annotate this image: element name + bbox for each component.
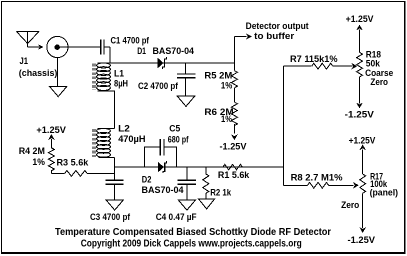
svg-text:R1 5.6k: R1 5.6k	[218, 170, 250, 181]
svg-text:C3 4700 pf: C3 4700 pf	[90, 212, 131, 223]
capacitor C3	[105, 179, 123, 181]
svg-text:1%: 1%	[221, 114, 232, 125]
resistor R5	[231, 71, 237, 88]
svg-text:R4 2M: R4 2M	[19, 146, 45, 157]
capacitor C5	[159, 139, 161, 155]
svg-text:BAS70-04: BAS70-04	[153, 46, 195, 57]
inductor L1	[97, 63, 111, 68]
svg-text:8µH: 8µH	[114, 79, 128, 90]
wire R4 top	[48, 134, 55, 140]
wire R17 bottom	[362, 193, 364, 228]
diode D2	[158, 162, 164, 173]
wire R17 top	[359, 144, 366, 150]
antenna symbol	[17, 32, 40, 48]
wire R4 to R3	[50, 171, 52, 174]
wire L1 bottom	[97, 90, 115, 92]
wire C3 to ground	[114, 184, 116, 200]
wire output riser	[233, 37, 235, 71]
svg-text:D1: D1	[137, 46, 146, 57]
ground under J1	[50, 86, 67, 96]
resistor R4	[48, 148, 54, 171]
svg-text:Zero: Zero	[370, 77, 388, 88]
wire L2 bottom	[99, 157, 115, 159]
svg-text:C4 0.47 µF: C4 0.47 µF	[156, 212, 197, 223]
wire R6 to -1.25V	[233, 124, 235, 133]
wire R8 left	[283, 184, 307, 186]
svg-text:(chassis): (chassis)	[19, 68, 58, 79]
svg-text:-1.25V: -1.25V	[348, 235, 376, 246]
svg-text:C2 4700 pf: C2 4700 pf	[138, 81, 179, 92]
svg-text:+1.25V: +1.25V	[346, 14, 375, 25]
wire to C4	[186, 167, 188, 180]
ground under R2	[199, 199, 215, 209]
svg-text:R8 2.7 M1%: R8 2.7 M1%	[291, 173, 344, 184]
diode D1	[158, 58, 164, 69]
svg-text:+1.25V: +1.25V	[349, 136, 376, 147]
wire J1 to ground	[56, 58, 58, 87]
svg-text:R3 5.6k: R3 5.6k	[57, 157, 89, 168]
svg-text:Copyright 2009 Dick Cappels ww: Copyright 2009 Dick Cappels www.projects…	[81, 238, 302, 249]
svg-text:J1: J1	[20, 56, 29, 67]
resistor R6	[231, 102, 237, 126]
wire node column	[282, 66, 284, 185]
wire R7 left	[283, 65, 311, 67]
wire spine to C3	[114, 158, 116, 181]
svg-text:1%: 1%	[32, 157, 45, 168]
svg-text:C1 4700 pf: C1 4700 pf	[111, 35, 150, 46]
ground under C2	[177, 96, 194, 106]
wire output arrow	[234, 36, 246, 38]
connector J1 (BNC jack)	[47, 36, 68, 57]
capacitor C4	[178, 179, 196, 181]
capacitor C1	[100, 40, 102, 55]
svg-text:to buffer: to buffer	[254, 31, 294, 42]
svg-text:-1.25V: -1.25V	[220, 141, 248, 152]
potentiometer R17	[360, 174, 366, 193]
wire L2 top	[97, 128, 114, 130]
svg-text:Zero: Zero	[341, 200, 359, 211]
wire R5-R6	[233, 88, 235, 102]
wire R18 bottom	[359, 77, 361, 103]
wire C2 to ground	[185, 78, 187, 96]
svg-text:L2: L2	[118, 123, 130, 134]
border frame	[1, 1, 406, 2]
resistor R2	[203, 174, 209, 194]
wire R2 to ground	[205, 193, 207, 199]
svg-text:1%: 1%	[221, 81, 233, 92]
resistor R8	[308, 182, 329, 188]
svg-text:Temperature Compensated Biased: Temperature Compensated Biased Schottky …	[55, 227, 331, 238]
capacitor C2	[177, 73, 195, 75]
resistor R7	[312, 63, 333, 69]
wire C4 to ground	[186, 184, 188, 200]
ground under C4	[178, 200, 195, 210]
potentiometer R18	[357, 52, 363, 77]
wire J1 to C1	[60, 46, 101, 48]
svg-text:(panel): (panel)	[370, 188, 398, 199]
wire to C2	[185, 63, 187, 74]
wire R8 arrow	[329, 184, 354, 186]
wire C1 to node	[104, 46, 110, 48]
svg-text:470µH: 470µH	[118, 134, 145, 145]
svg-text:R7 115k1%: R7 115k1%	[290, 54, 338, 65]
resistor R1	[223, 164, 243, 169]
wire RF line	[97, 62, 235, 64]
svg-text:680 pf: 680 pf	[168, 134, 189, 145]
svg-text:D2: D2	[142, 174, 152, 185]
svg-text:BAS70-04: BAS70-04	[142, 185, 185, 196]
wire C5 loop	[144, 147, 176, 167]
wire R18 top	[356, 25, 363, 31]
svg-text:R2 1k: R2 1k	[210, 187, 232, 198]
wire to R2	[205, 167, 207, 174]
ground under C3	[106, 200, 123, 210]
svg-text:C5: C5	[169, 123, 181, 134]
svg-text:-1.25V: -1.25V	[345, 109, 375, 120]
wire L1-L2 connector	[114, 91, 116, 129]
inductor L2	[97, 128, 111, 133]
resistor R3	[65, 171, 87, 177]
wire R3 to spine	[87, 172, 115, 174]
wire R7 right arrow	[333, 65, 353, 67]
wire bias line	[115, 166, 284, 168]
